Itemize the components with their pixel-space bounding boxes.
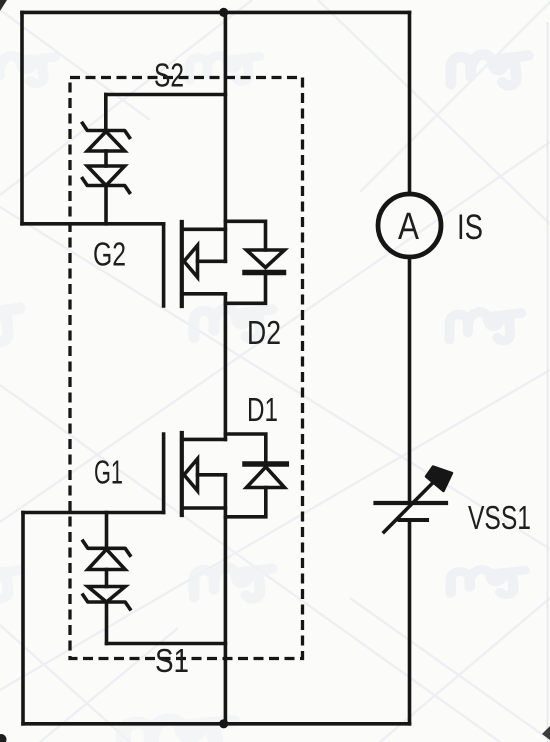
diode D2 bottom rail: [225, 275, 265, 303]
wire top rail: [22, 11, 410, 15]
svg-text:S2: S2: [154, 58, 184, 95]
junction dot top: [219, 8, 228, 17]
wire S1 horizontal: [107, 642, 226, 646]
diode D1 bottom rail: [225, 488, 265, 517]
zener Z1b triangle: [88, 587, 125, 603]
zener pair Z2 top wire: [104, 95, 108, 131]
zener pair Z1 bottom wire: [105, 602, 109, 644]
wire right vertical top (to ammeter): [408, 12, 412, 194]
mosfet M2 channel bar: [180, 222, 184, 306]
wire G2 horizontal: [22, 222, 164, 226]
diode D2 top rail: [225, 221, 265, 250]
zener Z1b cathode bar: [82, 594, 131, 611]
zener Z2b cathode bar: [82, 177, 131, 194]
mosfet M1 body lead: [198, 473, 226, 477]
source VSS1 arrow shaft: [384, 478, 438, 533]
wire main vertical segment 3 (M1 body to bottom rail): [224, 475, 228, 724]
diode D1 cathode bar: [245, 461, 286, 467]
wire right vertical bottom (VSS1 to bottom rail): [408, 522, 412, 724]
svg-text:S1: S1: [155, 643, 189, 680]
corner mark bottom-right: [542, 726, 550, 740]
diode D1 top rail: [225, 434, 265, 461]
wire bottom rail: [23, 722, 410, 726]
right edge scan line: [547, 22, 549, 742]
svg-text:VSS1: VSS1: [468, 500, 531, 537]
wire left lower vertical: [21, 513, 25, 724]
zener pair Z2 bottom wire: [104, 186, 108, 224]
mosfet M1 body arrow: [184, 459, 198, 491]
wire G1 horizontal: [23, 511, 164, 515]
zener Z2b triangle: [87, 166, 124, 186]
zener Z1 middle wire: [105, 570, 109, 587]
mosfet M1 channel bar: [180, 433, 184, 515]
svg-text:G1: G1: [94, 455, 123, 492]
corner mark top-left: [0, 0, 7, 11]
wire S2 horizontal: [106, 93, 226, 97]
svg-text:G2: G2: [93, 237, 126, 274]
zener Z2a cathode bar: [82, 122, 131, 139]
wire left upper vertical: [20, 12, 24, 223]
zener Z2a triangle: [87, 132, 124, 152]
mosfet M2 body arrow: [184, 245, 198, 277]
zener Z2 middle wire: [104, 151, 108, 166]
mosfet M1 gate bar: [162, 434, 166, 513]
wire right vertical middle (ammeter to VSS1): [408, 258, 412, 502]
mosfet M1 drain lead (top): [182, 438, 226, 442]
mosfet M1 source lead (bottom): [182, 506, 226, 510]
diode D2 triangle: [247, 250, 285, 268]
mosfet M2 source lead (top): [182, 228, 226, 232]
diode D2 cathode bar: [245, 270, 284, 276]
diode D1 triangle: [247, 467, 285, 488]
source VSS1 arrow head: [426, 467, 452, 492]
wire main vertical segment 1 (S2 to M2 body): [224, 12, 228, 261]
ammeter IS circle: [378, 194, 441, 257]
dashed boundary box: [70, 78, 303, 659]
svg-text:IS: IS: [457, 207, 483, 247]
svg-text:D1: D1: [247, 392, 278, 429]
zener Z1a cathode bar: [82, 540, 131, 557]
corner mark bottom-left: [0, 734, 7, 742]
source VSS1 short bar: [400, 518, 428, 522]
svg-text:A: A: [398, 206, 420, 248]
mosfet M2 body lead: [198, 259, 226, 263]
zener Z1a triangle: [88, 549, 125, 569]
source VSS1 long bar: [376, 501, 447, 505]
wire main vertical segment 2 (M2 drain to M1 drain): [224, 294, 228, 440]
junction dot bottom: [219, 719, 228, 728]
svg-text:D2: D2: [247, 315, 281, 352]
zener pair Z1 top wire: [105, 513, 109, 549]
mosfet M2 drain lead (bottom): [182, 292, 226, 296]
mosfet M2 gate bar: [162, 224, 166, 306]
